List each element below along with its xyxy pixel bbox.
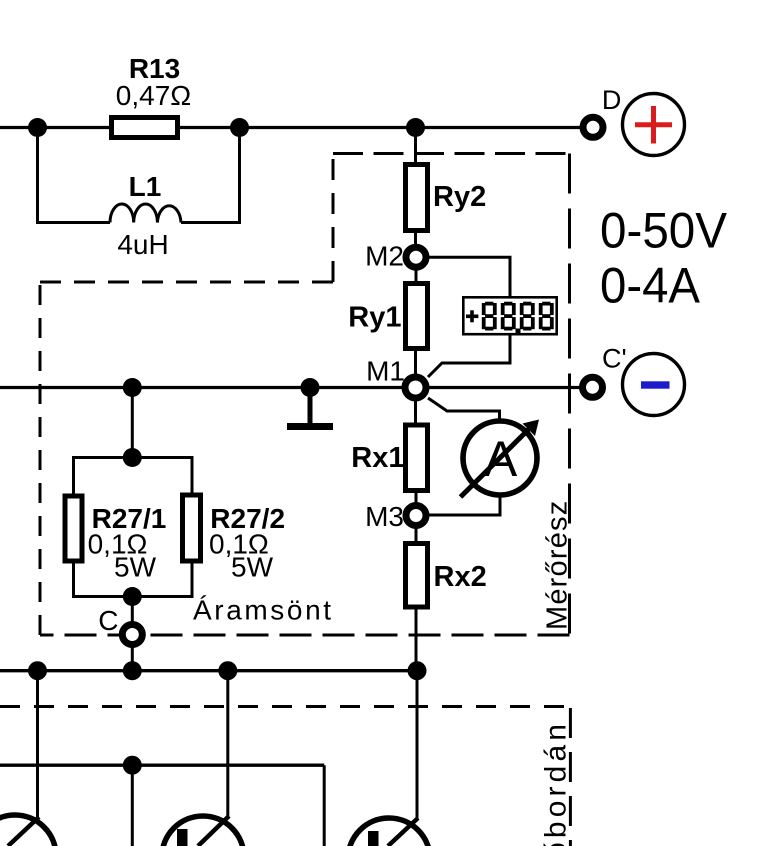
dashed edge: meroresz right	[568, 154, 571, 636]
dashed box: heatsink top edge	[0, 705, 570, 708]
wire: shunt branch down	[131, 388, 134, 458]
inductor L1 with parallel wires	[38, 128, 240, 223]
dashed edge: meroresz top	[333, 152, 570, 155]
resistor Rx2	[406, 544, 428, 608]
transistor Q3	[348, 818, 430, 846]
wire: shunt bottom to C	[131, 597, 134, 626]
dashed box: heatsink right edge	[569, 708, 572, 846]
wire: Ry2 to M2	[414, 230, 417, 248]
svg-text:0-50V: 0-50V	[600, 203, 728, 259]
wire: C to bus	[131, 645, 134, 671]
svg-text:L1: L1	[129, 171, 162, 202]
svg-text:D: D	[602, 85, 622, 115]
dashed edge: bottom	[40, 634, 570, 637]
resistor R27/1	[65, 496, 82, 561]
ammeter A	[463, 421, 537, 495]
wire: M2 to Ry1	[415, 267, 418, 284]
dashed edge: left	[39, 282, 42, 635]
wire: collector Q2	[226, 671, 229, 818]
transistor Q1	[0, 815, 56, 846]
wire: Ry1 to M1	[414, 348, 417, 375]
wire: top main rail y=127.5 from left edge to terminal D	[0, 126, 584, 129]
svg-text:Áramsönt: Áramsönt	[193, 595, 334, 626]
resistor Rx1	[406, 425, 428, 491]
node: bus dot 4	[408, 661, 427, 680]
svg-text:M3: M3	[365, 501, 404, 532]
bus wire bottom	[0, 669, 417, 672]
node: junction dot shunt top	[123, 448, 142, 467]
wire: M1 to Rx1	[414, 398, 417, 424]
node: junction dot top of measuring branch	[406, 118, 425, 137]
node: bus dot 1	[28, 661, 47, 680]
svg-text:Rx1: Rx1	[351, 442, 404, 474]
wire: base rail drop right	[323, 765, 326, 846]
svg-text:Mérőrész: Mérőrész	[542, 500, 574, 630]
wire: collector Q3	[416, 671, 419, 820]
digital panel meter display	[463, 297, 556, 334]
wire: Rx1 to M3	[415, 490, 418, 506]
terminal D	[583, 117, 603, 137]
svg-text:M1: M1	[366, 356, 405, 387]
node: junction dot right of R13	[230, 118, 249, 137]
svg-text:0,47Ω: 0,47Ω	[116, 80, 191, 111]
transistor Q2	[162, 816, 244, 846]
wire: display to M1	[428, 335, 510, 377]
svg-text:Ry2: Ry2	[433, 181, 486, 213]
resistor Ry2	[406, 165, 428, 231]
wire: ammeter to M3	[427, 495, 500, 515]
node: junction dot shunt branch	[123, 378, 142, 397]
ground	[308, 388, 313, 425]
node M1	[405, 377, 426, 398]
node: bus dot 2	[123, 661, 142, 680]
svg-text:5W: 5W	[231, 552, 274, 583]
svg-text:5W: 5W	[114, 552, 157, 583]
svg-text:Ry1: Ry1	[348, 302, 401, 334]
minus output symbol	[623, 354, 685, 416]
wire: second main rail y=387.5 to terminal C'	[0, 386, 583, 389]
wire: M3 to Rx2	[415, 526, 418, 544]
svg-text:4uH: 4uH	[117, 229, 168, 260]
resistor Ry1	[406, 284, 428, 349]
node: bus dot 3	[218, 661, 237, 680]
plus output symbol	[623, 94, 685, 156]
wire: M2 to display	[426, 257, 510, 297]
svg-text:0-4A: 0-4A	[600, 258, 701, 314]
dashed edge: aramsont top	[40, 281, 333, 284]
svg-text:M2: M2	[365, 241, 404, 272]
node: junction dot base rail	[123, 756, 142, 775]
wire: collector Q1	[36, 671, 39, 819]
wire: M1 to ammeter	[428, 398, 500, 422]
wire: base rail y=765	[0, 764, 324, 767]
wire: junction down to Ry2	[414, 128, 417, 165]
wire: Rx2 to bus	[415, 607, 418, 671]
terminal C'	[583, 377, 603, 397]
node: junction dot left of R13	[28, 118, 47, 137]
wire: shunt parallel loop	[74, 458, 193, 597]
wire: base rail drop left	[131, 765, 134, 846]
node M3	[406, 506, 426, 526]
dashed edge: step vertical	[332, 154, 335, 283]
svg-text:C': C'	[602, 344, 627, 374]
resistor R13	[112, 118, 178, 138]
svg-text:Rx2: Rx2	[434, 561, 487, 593]
node M2	[406, 247, 426, 267]
node: junction dot shunt bottom	[123, 587, 142, 606]
resistor R27/2	[183, 495, 201, 561]
svg-text:C: C	[98, 605, 118, 636]
node: junction dot ground	[301, 378, 320, 397]
